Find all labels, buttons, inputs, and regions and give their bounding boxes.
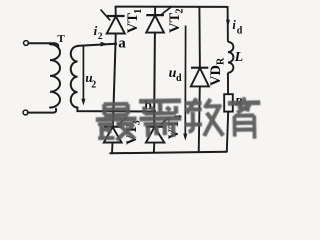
terminal top-left: [24, 41, 29, 46]
wire column b (node b to VT4): [153, 33, 156, 127]
svg-text:2: 2: [98, 32, 103, 42]
label VT1 (rotated): [125, 9, 144, 34]
svg-text:T: T: [57, 33, 65, 45]
wire primary top: [28, 43, 58, 47]
transformer T secondary winding: [71, 46, 78, 107]
svg-text:R: R: [216, 57, 227, 65]
wire resistor to bottom rail: [227, 112, 228, 152]
node a junction dot: [115, 43, 118, 46]
thyristor VT4 (bottom right): [146, 112, 169, 153]
svg-text:d: d: [176, 73, 182, 84]
label VT4 (rotated): [166, 115, 185, 140]
terminal bottom-left: [23, 110, 28, 115]
current arrow id: [226, 20, 230, 27]
watermark char 需: [139, 101, 182, 138]
voltage arrow ud: [184, 26, 186, 135]
thyristor VT1: [101, 7, 125, 44]
wire secondary top to node a (i2 wire): [78, 44, 116, 46]
wire load branch right: [227, 7, 229, 42]
transformer T primary winding: [50, 44, 60, 107]
wire primary bottom: [28, 109, 56, 113]
freewheeling diode VDR: [191, 7, 209, 152]
thyristor VT3 (bottom left): [104, 118, 127, 154]
label VT3 (rotated): [124, 120, 143, 145]
wire top rail: [116, 6, 228, 8]
node b junction dot: [152, 110, 156, 114]
watermark char 最: [96, 104, 137, 141]
svg-text:VD: VD: [208, 65, 224, 86]
wire secondary bottom to node b: [77, 108, 154, 112]
voltage arrow u2: [82, 47, 84, 100]
current arrow i2: [101, 42, 108, 47]
paper background: [0, 0, 270, 160]
wire bottom rail: [110, 152, 227, 154]
resistor R: [224, 94, 233, 111]
svg-text:2: 2: [175, 9, 186, 14]
svg-text:L: L: [234, 50, 244, 65]
watermark 最需教育: [96, 97, 261, 141]
label VDR (rotated): [208, 57, 227, 86]
svg-text:i: i: [232, 18, 236, 32]
svg-text:a: a: [118, 36, 126, 52]
svg-text:2: 2: [91, 79, 96, 90]
svg-text:d: d: [237, 25, 243, 36]
label VT2 (rotated): [167, 9, 186, 34]
watermark char 育: [228, 97, 261, 139]
wire inductor to resistor: [227, 73, 229, 95]
svg-text:1: 1: [133, 9, 144, 14]
wire column a (node a to VT3): [113, 44, 116, 127]
watermark char 教: [184, 98, 223, 136]
thyristor VT2: [146, 6, 172, 32]
inductor L: [228, 42, 234, 73]
svg-text:VT: VT: [125, 13, 141, 33]
svg-text:VT: VT: [167, 13, 183, 33]
